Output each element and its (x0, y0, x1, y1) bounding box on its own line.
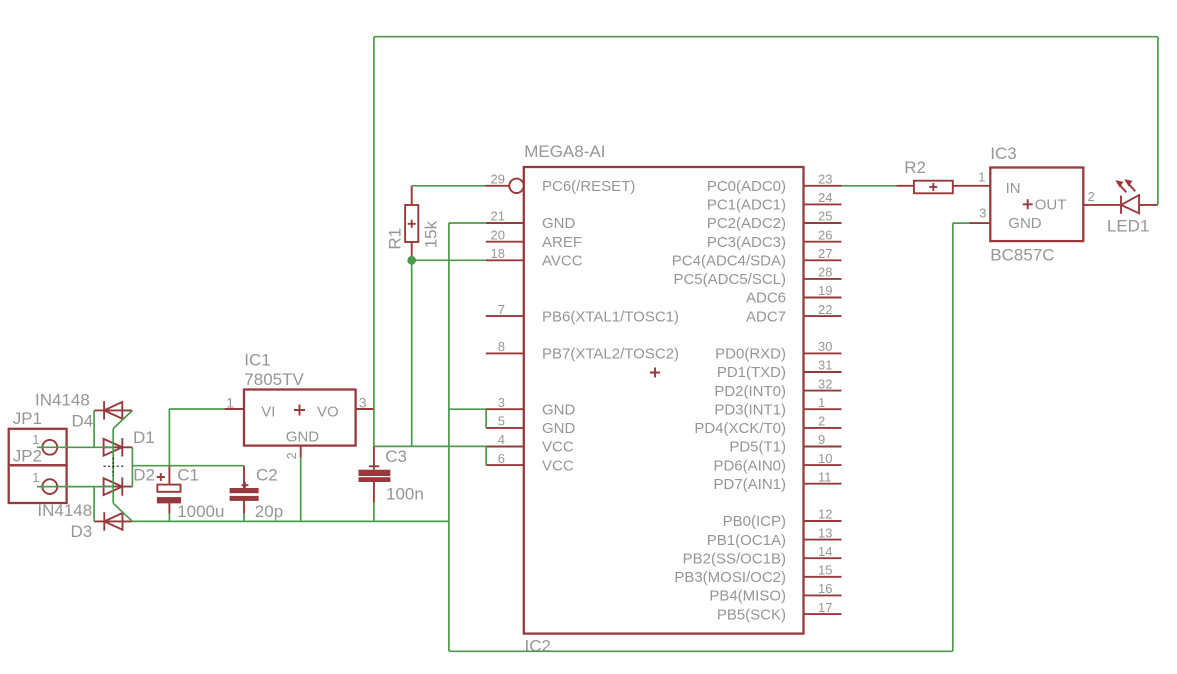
wire C3 bottom (373, 503, 375, 522)
svg-text:PD1(TXD): PD1(TXD) (717, 364, 786, 381)
wire bottom GND rail left (132, 520, 449, 522)
svg-text:C3: C3 (385, 447, 407, 466)
svg-text:100n: 100n (386, 485, 424, 504)
wire AVCC to pin 18 (412, 259, 486, 261)
IC3 pin 2 stub (1083, 204, 1121, 206)
svg-text:PB0(ICP): PB0(ICP) (723, 513, 786, 530)
svg-text:7: 7 (498, 302, 505, 317)
svg-text:PC1(ADC1): PC1(ADC1) (707, 197, 786, 214)
transistor block IC3 box (990, 168, 1083, 242)
IC2 origin cross (650, 368, 660, 378)
IC2 pin 10 PD6(AIN0) stub (804, 464, 842, 466)
svg-text:GND: GND (542, 401, 576, 418)
svg-text:3: 3 (498, 395, 505, 410)
svg-text:6: 6 (498, 451, 505, 466)
svg-text:PD2(INT0): PD2(INT0) (714, 383, 786, 400)
IC2 pin 11 PD7(AIN1) stub (804, 483, 842, 485)
IC2 pin 1 PD3(INT1) stub (804, 408, 842, 410)
connector JP2 (9, 465, 67, 503)
wire C2 bottom (243, 513, 245, 521)
svg-text:IN: IN (1006, 180, 1021, 197)
wire GND vertical from pin 21 (448, 223, 450, 651)
diode D2 lead (103, 486, 133, 488)
wire right vertical to LED1 (1157, 37, 1159, 205)
svg-text:PD6(AIN0): PD6(AIN0) (713, 457, 786, 474)
IC2 pin 7 PB6(XTAL1/TOSC1) stub (486, 315, 524, 317)
node bridge center dotted origin cross (104, 458, 124, 477)
svg-text:JP2: JP2 (13, 446, 42, 465)
wire C1 node vertical to VI (168, 409, 170, 466)
svg-text:16: 16 (818, 581, 832, 596)
wire IC3 pin 3 horizontal (953, 222, 970, 224)
svg-text:1: 1 (226, 395, 234, 411)
IC2 pin 23 PC0(ADC0) stub (804, 185, 842, 187)
IC2 pin 9 PD5(T1) stub (804, 446, 842, 448)
svg-text:GND: GND (542, 215, 576, 232)
svg-text:ADC7: ADC7 (746, 308, 786, 325)
wire jumper VCC pin 4 to pin 6 (485, 446, 487, 465)
wire bridge right vertical (131, 447, 133, 486)
IC2 pin 31 PD1(TXD) stub (804, 371, 842, 373)
wire GND pin 21 horizontal (449, 222, 486, 224)
IC2 pin 29 PC6(/RESET) with inversion circle (485, 179, 524, 193)
regulator IC1 7805TV box (244, 390, 356, 446)
svg-text:13: 13 (818, 525, 832, 540)
svg-text:26: 26 (818, 227, 832, 242)
IC2 pin 22 ADC7 stub (804, 315, 842, 317)
IC3 origin cross (1023, 199, 1033, 209)
IC2 pin 26 PC3(ADC3) stub (804, 241, 842, 243)
wire VI pin horizontal (169, 408, 224, 410)
wire bridge center vertical (112, 429, 114, 504)
svg-text:32: 32 (818, 376, 832, 391)
svg-text:8: 8 (498, 339, 505, 354)
svg-text:PB5(SCK): PB5(SCK) (717, 606, 786, 623)
svg-text:VCC: VCC (542, 457, 574, 474)
svg-text:VI: VI (261, 404, 275, 421)
svg-text:VCC: VCC (542, 439, 574, 456)
svg-text:PC5(ADC5/SCL): PC5(ADC5/SCL) (673, 271, 786, 288)
wire VCC top rail (374, 36, 1158, 38)
svg-text:R2: R2 (904, 158, 926, 177)
svg-text:PD0(RXD): PD0(RXD) (715, 346, 786, 363)
IC2 pin 25 PC2(ADC2) stub (804, 222, 842, 224)
svg-text:11: 11 (818, 469, 832, 484)
svg-text:PC6(/RESET): PC6(/RESET) (542, 178, 635, 195)
svg-text:7805TV: 7805TV (244, 370, 304, 389)
svg-text:PB7(XTAL2/TOSC2): PB7(XTAL2/TOSC2) (542, 346, 679, 363)
diode D1 (104, 438, 123, 456)
svg-text:PC0(ADC0): PC0(ADC0) (707, 178, 786, 195)
IC2 pin 21 GND stub (486, 222, 524, 224)
capacitor C1 (157, 466, 181, 514)
wire bridge diagonal from D4 (113, 410, 132, 428)
IC1 origin cross (294, 405, 305, 416)
IC3 pin 3 stub (969, 222, 990, 224)
wire bottom GND rail IC2 (449, 650, 953, 652)
IC2 pin 24 PC1(ADC1) stub (804, 203, 842, 205)
svg-text:PD5(T1): PD5(T1) (729, 439, 786, 456)
diode D4 lead (94, 409, 132, 411)
svg-text:23: 23 (818, 172, 832, 187)
IC2 pin 8 PB7(XTAL2/TOSC2) stub (486, 352, 524, 354)
IC2 pin 18 AVCC stub (486, 259, 524, 261)
svg-text:1: 1 (32, 470, 39, 485)
svg-text:PB4(MISO): PB4(MISO) (709, 588, 786, 605)
svg-text:24: 24 (818, 190, 832, 205)
wire IC1 GND pin down (300, 458, 302, 522)
svg-text:IN4148: IN4148 (37, 501, 92, 520)
IC2 pin 13 PB1(OC1A) stub (804, 539, 842, 541)
svg-text:29: 29 (491, 172, 505, 187)
wire PC0 pin 23 to R2 (842, 185, 897, 187)
svg-text:MEGA8-AI: MEGA8-AI (524, 142, 605, 161)
svg-text:AREF: AREF (542, 234, 582, 251)
LED1 emission arrows (1115, 179, 1135, 192)
svg-text:C2: C2 (256, 466, 278, 485)
svg-text:17: 17 (818, 600, 832, 615)
IC2 pin 2 PD4(XCK/T0) stub (804, 427, 842, 429)
svg-text:19: 19 (818, 283, 832, 298)
junction node AVCC (407, 256, 416, 265)
diode D4 (104, 401, 122, 419)
svg-text:PD3(INT1): PD3(INT1) (714, 401, 786, 418)
svg-text:2: 2 (1088, 189, 1095, 204)
diode D1 lead (103, 446, 133, 448)
wire JP2 pin to bridge (37, 486, 113, 488)
svg-text:15: 15 (818, 563, 832, 578)
IC1 pin 1 VI stub (225, 408, 244, 410)
svg-text:1: 1 (978, 169, 985, 184)
svg-text:GND: GND (1008, 215, 1042, 232)
svg-text:LED1: LED1 (1107, 216, 1150, 235)
svg-text:14: 14 (818, 544, 832, 559)
svg-text:GND: GND (542, 420, 576, 437)
svg-text:3: 3 (359, 395, 367, 411)
svg-text:IN4148: IN4148 (35, 391, 90, 410)
svg-text:21: 21 (491, 209, 505, 224)
resistor R1 (405, 186, 418, 256)
LED LED1 (1121, 195, 1158, 214)
svg-text:1: 1 (32, 432, 39, 447)
svg-text:18: 18 (491, 246, 505, 261)
wire R1 bottom vertical to VO node (411, 260, 413, 446)
svg-text:5: 5 (498, 414, 505, 429)
svg-text:C1: C1 (177, 466, 199, 485)
svg-text:VO: VO (317, 404, 339, 421)
svg-text:PC3(ADC3): PC3(ADC3) (707, 234, 786, 251)
IC1 pin 3 VO stub (356, 408, 374, 410)
svg-text:IC2: IC2 (525, 636, 551, 655)
svg-text:PD7(AIN1): PD7(AIN1) (713, 476, 786, 493)
IC2 pin 5 GND stub (486, 427, 524, 429)
wire bridge left vertical lower (93, 487, 95, 522)
IC2 pin 4 VCC stub (486, 446, 524, 448)
svg-text:PC2(ADC2): PC2(ADC2) (707, 215, 786, 232)
svg-text:PD4(XCK/T0): PD4(XCK/T0) (694, 420, 786, 437)
resistor R2 (897, 181, 991, 194)
IC2 pin 15 PB3(MOSI/OC2) stub (804, 576, 842, 578)
wire C1 bottom (168, 513, 170, 521)
wire IC3 GND vertical (952, 223, 954, 651)
svg-text:20p: 20p (255, 502, 283, 521)
IC2 pin 19 ADC6 stub (804, 297, 842, 299)
svg-text:JP1: JP1 (13, 409, 42, 428)
wire bridge diagonal to D3 (113, 503, 132, 521)
svg-text:2: 2 (284, 452, 299, 459)
IC2 pin 3 GND stub (486, 408, 524, 410)
svg-text:31: 31 (818, 358, 832, 373)
svg-text:3: 3 (979, 206, 986, 221)
svg-text:9: 9 (818, 432, 825, 447)
wire JP1 pin to bridge (37, 446, 113, 448)
svg-text:30: 30 (818, 339, 832, 354)
svg-text:10: 10 (818, 451, 832, 466)
IC2 pin 6 VCC stub (486, 464, 524, 466)
wire VO horizontal to VCC pin 4 (374, 445, 486, 447)
wire left vertical from top rail to VO node (373, 37, 375, 447)
svg-text:R1: R1 (385, 228, 404, 250)
connector JP1 (9, 429, 67, 466)
svg-text:ADC6: ADC6 (746, 290, 786, 307)
diode D2 (104, 477, 123, 495)
svg-text:2: 2 (818, 414, 825, 429)
svg-text:15k: 15k (422, 220, 441, 248)
capacitor C3 (359, 446, 391, 502)
svg-text:D4: D4 (72, 412, 94, 431)
wire bridge output to C2 (132, 465, 244, 467)
svg-text:PB1(OC1A): PB1(OC1A) (707, 532, 786, 549)
IC2 pin 20 AREF stub (486, 241, 524, 243)
svg-text:OUT: OUT (1035, 197, 1067, 214)
svg-text:PB6(XTAL1/TOSC1): PB6(XTAL1/TOSC1) (542, 308, 679, 325)
svg-text:4: 4 (498, 432, 505, 447)
svg-text:1000u: 1000u (177, 502, 224, 521)
diode D3 (104, 512, 122, 530)
svg-text:25: 25 (818, 209, 832, 224)
svg-text:GND: GND (286, 429, 320, 446)
svg-text:IC3: IC3 (990, 144, 1016, 163)
wire R1 top to RESET pin 29 (412, 185, 486, 187)
svg-text:BC857C: BC857C (990, 246, 1054, 265)
svg-text:28: 28 (818, 265, 832, 280)
IC2 pin 28 PC5(ADC5/SCL) stub (804, 278, 842, 280)
IC2 pin 17 PB5(SCK) stub (804, 613, 842, 615)
svg-text:IC1: IC1 (244, 350, 270, 369)
IC2 pin 12 PB0(ICP) stub (804, 520, 842, 522)
IC1 pin 2 GND stub (300, 446, 302, 458)
IC2 pin 27 PC4(ADC4/SDA) stub (804, 259, 842, 261)
svg-text:AVCC: AVCC (542, 253, 583, 270)
svg-text:D3: D3 (71, 522, 93, 541)
IC2 pin 32 PD2(INT0) stub (804, 390, 842, 392)
svg-text:D2: D2 (133, 466, 155, 485)
diode D3 lead (94, 520, 132, 522)
svg-text:22: 22 (818, 302, 832, 317)
wire bridge left vertical upper (93, 410, 95, 447)
svg-text:12: 12 (818, 507, 832, 522)
svg-text:27: 27 (818, 246, 832, 261)
IC2 pin 14 PB2(SS/OC1B) stub (804, 557, 842, 559)
svg-text:PB3(MOSI/OC2): PB3(MOSI/OC2) (674, 569, 786, 586)
IC2 pin 16 PB4(MISO) stub (804, 594, 842, 596)
IC2 pin 30 PD0(RXD) stub (804, 352, 842, 354)
svg-text:1: 1 (818, 395, 825, 410)
wire jumper GND pin 3 to pin 5 (485, 409, 487, 428)
svg-text:20: 20 (491, 227, 505, 242)
svg-text:PB2(SS/OC1B): PB2(SS/OC1B) (683, 550, 786, 567)
capacitor C2 (230, 466, 259, 514)
wire GND pin 3 horizontal (449, 408, 486, 410)
svg-text:PC4(ADC4/SDA): PC4(ADC4/SDA) (672, 253, 786, 270)
IC2 MEGA8-AI box (524, 167, 804, 634)
svg-text:D1: D1 (133, 428, 155, 447)
